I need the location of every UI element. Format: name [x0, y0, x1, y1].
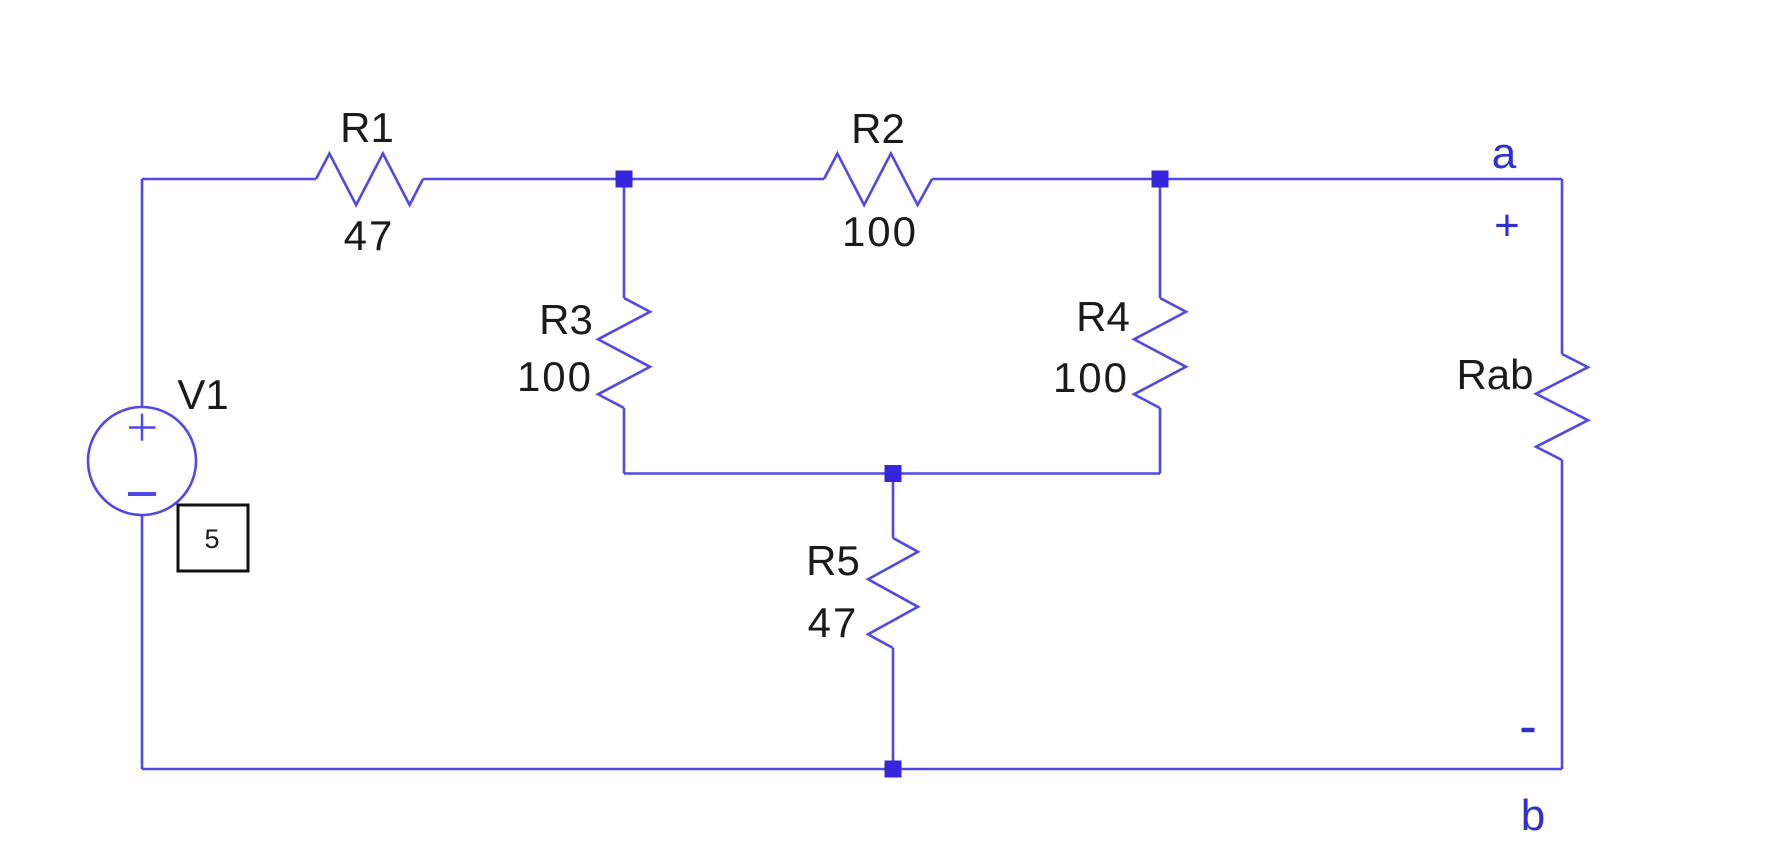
svg-text:100: 100	[517, 353, 593, 400]
resistor R5	[868, 538, 918, 648]
wire bottom	[142, 768, 1562, 771]
junction node 2	[1152, 171, 1169, 188]
resistor R3	[598, 298, 650, 408]
wire top segment 3	[932, 178, 1562, 181]
wire R4 top lead	[1159, 179, 1162, 298]
svg-text:a: a	[1492, 129, 1517, 178]
svg-text:5: 5	[204, 524, 219, 554]
wire right bottom (node b lead)	[1561, 460, 1564, 769]
value box (5)	[178, 505, 248, 571]
svg-text:47: 47	[808, 599, 859, 646]
wire middle node	[624, 472, 1160, 475]
resistor R4	[1134, 298, 1186, 408]
svg-text:Rab: Rab	[1456, 351, 1533, 398]
junction node 4	[885, 761, 902, 778]
wire left bottom (V1 bottom lead)	[141, 515, 144, 769]
wire left top (V1 top lead)	[141, 179, 144, 407]
wire R4 bottom lead	[1159, 408, 1162, 474]
junction node 3	[885, 465, 902, 482]
wire R3 top lead	[623, 179, 626, 298]
junction node 1	[616, 171, 633, 188]
wire top segment 1	[142, 178, 316, 181]
wire top segment 2	[423, 178, 824, 181]
node label -	[1522, 728, 1535, 733]
svg-text:b: b	[1521, 791, 1545, 840]
wire right top (node a lead)	[1561, 179, 1564, 354]
resistor Rab	[1536, 354, 1588, 460]
resistor R2	[824, 154, 932, 206]
svg-text:100: 100	[1053, 354, 1129, 401]
svg-text:R2: R2	[851, 105, 905, 152]
wire R5 bottom lead	[892, 648, 895, 769]
svg-text:V1: V1	[177, 371, 228, 418]
resistor R1	[316, 154, 423, 206]
svg-text:R1: R1	[340, 104, 394, 151]
V1 minus mark	[128, 492, 156, 496]
wire R5 top lead	[892, 474, 895, 539]
wire R3 bottom lead	[623, 408, 626, 474]
voltage source V1	[88, 407, 196, 515]
svg-text:100: 100	[842, 208, 918, 255]
svg-text:47: 47	[344, 212, 395, 259]
V1 plus mark	[129, 414, 156, 441]
svg-text:R3: R3	[539, 296, 593, 343]
svg-text:+: +	[1494, 201, 1520, 250]
svg-text:R5: R5	[806, 537, 860, 584]
svg-text:R4: R4	[1076, 293, 1130, 340]
